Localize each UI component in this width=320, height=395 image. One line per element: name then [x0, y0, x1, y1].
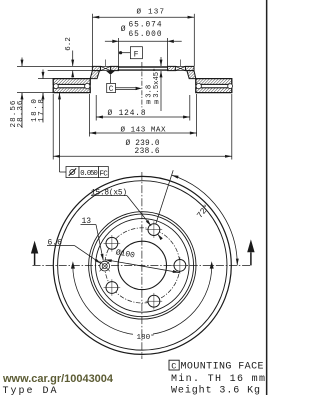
hat right wall [187, 71, 196, 79]
circle Ø143 [89, 212, 196, 319]
outer circle Ø239 [53, 176, 231, 354]
dimension Ø137 [93, 14, 195, 66]
bolt pitch circle Ø100 dashed [105, 228, 180, 303]
svg-text:Ø 137: Ø 137 [137, 7, 165, 16]
dimension Ø100 diagonal [105, 260, 180, 273]
svg-text:6.6: 6.6 [48, 238, 63, 247]
dimension Ø65.074/65.000 [105, 38, 182, 66]
circle Ø137 [91, 214, 194, 317]
svg-text:C: C [109, 86, 114, 94]
bore far-side lines [119, 67, 168, 69]
180 degree arc dimension [71, 261, 214, 334]
dimension Ø239.0/238.6 [53, 94, 232, 160]
outer chamfer circle [58, 181, 227, 350]
section: hat plate left part [90, 66, 196, 78]
svg-text:17.8: 17.8 [38, 99, 46, 122]
svg-text:www.car.gr/10043004: www.car.gr/10043004 [2, 373, 114, 385]
horizontal centerline [33, 264, 251, 266]
right ring vent rib circles [196, 83, 201, 88]
svg-text:FC: FC [99, 170, 108, 178]
hat left wall [90, 71, 99, 79]
dimension 6.2 (hat plate thickness) [72, 51, 74, 78]
section: left friction ring [53, 79, 90, 93]
bolt hole crosshairs [104, 221, 189, 309]
chamfer dimension line with arrows [160, 57, 162, 66]
dimension Ø143 MAX [89, 94, 196, 137]
section: right friction ring [196, 79, 232, 93]
bolt holes x5 [106, 224, 186, 307]
section centerline [141, 62, 143, 108]
svg-text:Weight 3.6 Kg: Weight 3.6 Kg [171, 385, 260, 395]
section plane arrow left [31, 241, 38, 266]
hat plate right part [168, 66, 176, 70]
left ring vent rib circles [54, 84, 59, 89]
sheet right border [266, 0, 268, 395]
72 degree arc dimension [156, 170, 237, 265]
svg-text:28.36: 28.36 [17, 100, 25, 127]
locating screw hole 6.6/13 [100, 261, 110, 271]
dimension Ø124.8 [96, 95, 190, 121]
svg-text:15.8(x5): 15.8(x5) [91, 189, 127, 197]
svg-text:180°: 180° [137, 333, 155, 342]
svg-text:Ø 143 MAX: Ø 143 MAX [121, 126, 166, 135]
svg-text:6.2: 6.2 [65, 37, 73, 51]
bore circle Ø65 [118, 241, 166, 289]
svg-text:3.5x45°: 3.5x45° [152, 68, 161, 98]
flatness feature control frame 0.050 FC [60, 93, 109, 178]
svg-text:Ø 124.8: Ø 124.8 [108, 109, 146, 118]
svg-text:0.050: 0.050 [80, 170, 98, 178]
svg-text:MOUNTING FACE: MOUNTING FACE [181, 362, 264, 373]
datum C box [106, 71, 142, 93]
svg-text:65.074: 65.074 [129, 22, 162, 30]
svg-text:Type DA: Type DA [3, 386, 57, 395]
datum F box with leader dot [119, 47, 142, 59]
svg-text:Ø: Ø [121, 25, 126, 34]
svg-text:65.000: 65.000 [129, 31, 162, 39]
svg-text:238.6: 238.6 [135, 148, 160, 156]
section bolt hole right [175, 60, 185, 71]
section bolt hole left [101, 60, 111, 71]
vertical centerline [141, 172, 143, 359]
dimension 18.0/17.8 (disc thickness) [38, 70, 53, 123]
section plane arrow right [247, 239, 254, 265]
C MOUNTING FACE [169, 360, 264, 372]
dimension 28.56/28.36 (overall height) [17, 58, 92, 129]
circle Ø124.8 [96, 219, 190, 313]
svg-text:Min. TH 16 mm: Min. TH 16 mm [171, 373, 265, 385]
svg-text:F: F [134, 50, 139, 59]
svg-text:C: C [171, 361, 176, 371]
